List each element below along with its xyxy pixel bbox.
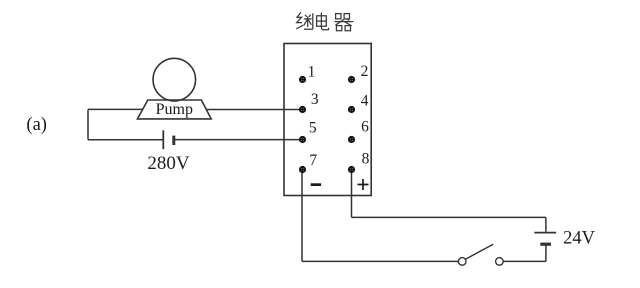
- wire: left bottom horizontal to battery: [88, 139, 163, 141]
- glyph 器: [335, 14, 354, 31]
- wire: pump to pin 3: [206, 109, 302, 111]
- wire: bottom horizontal to switch: [302, 260, 458, 262]
- glyph 电: [317, 13, 329, 30]
- svg-text:24V: 24V: [563, 229, 596, 249]
- pin 3: [299, 91, 319, 113]
- wire: down to battery top: [545, 217, 547, 231]
- motor circle (pump): [153, 58, 196, 101]
- svg-text:2: 2: [361, 63, 369, 80]
- svg-text:Pump: Pump: [156, 101, 193, 118]
- polarity minus (pin 7): [311, 183, 321, 186]
- svg-text:280V: 280V: [147, 153, 190, 174]
- battery B1 short plate (280V): [172, 136, 175, 145]
- pin 7: [299, 152, 317, 173]
- pin 2: [348, 63, 368, 83]
- svg-text:7: 7: [309, 152, 317, 169]
- polarity plus (pin 8): [358, 179, 369, 190]
- wire: battery to pin 5: [174, 139, 302, 141]
- wire: pin 8 down: [351, 170, 353, 218]
- battery B2 short plate (24V): [540, 243, 551, 246]
- wire: left vertical (pump/battery loop): [87, 109, 89, 139]
- wire: left top horizontal to pump: [88, 108, 143, 110]
- switch S1 right contact: [496, 258, 504, 266]
- wire: battery to switch right: [503, 260, 546, 262]
- glyph 继: [296, 12, 313, 29]
- pin 1: [299, 64, 315, 84]
- pin 5: [299, 120, 317, 144]
- svg-text:8: 8: [362, 151, 370, 168]
- svg-text:4: 4: [361, 93, 369, 110]
- svg-text:(a): (a): [26, 115, 47, 135]
- svg-text:6: 6: [361, 119, 369, 136]
- pump base trapezoid: [138, 100, 212, 119]
- wire: pin 8 horizontal to 24V battery: [352, 216, 546, 218]
- switch S1 left contact: [458, 258, 466, 266]
- svg-text:5: 5: [309, 120, 317, 137]
- wire: pin 7 down: [301, 170, 303, 262]
- pin 6: [348, 119, 369, 144]
- svg-text:1: 1: [308, 64, 316, 81]
- svg-text:3: 3: [311, 91, 319, 108]
- wire: battery bottom down: [545, 244, 547, 261]
- pin 8: [348, 151, 370, 174]
- switch S1 lever: [465, 244, 493, 259]
- pin 4: [348, 93, 369, 114]
- battery B2 long plate (24V): [534, 232, 556, 234]
- battery B1 long plate (280V): [162, 130, 164, 149]
- relay box: [284, 44, 371, 196]
- label 继电器 (relay title, drawn glyphs): [296, 12, 353, 30]
